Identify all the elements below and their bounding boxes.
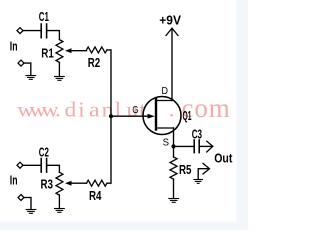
svg-text:R2: R2 (88, 56, 101, 70)
svg-text:In: In (10, 39, 18, 53)
svg-text:R1: R1 (41, 47, 54, 61)
svg-text:+9V: +9V (159, 13, 181, 27)
svg-text:C1: C1 (39, 10, 49, 24)
svg-text:D: D (162, 85, 169, 97)
svg-text:S: S (163, 137, 169, 149)
svg-text:Q1: Q1 (183, 109, 192, 123)
svg-text:R4: R4 (89, 189, 102, 203)
svg-text:C2: C2 (39, 146, 49, 160)
svg-text:R3: R3 (41, 177, 54, 191)
svg-text:In: In (10, 173, 18, 187)
svg-text:C3: C3 (192, 128, 202, 142)
svg-text:Out: Out (214, 152, 233, 166)
svg-text:R5: R5 (179, 163, 192, 177)
svg-text:G: G (132, 104, 138, 116)
